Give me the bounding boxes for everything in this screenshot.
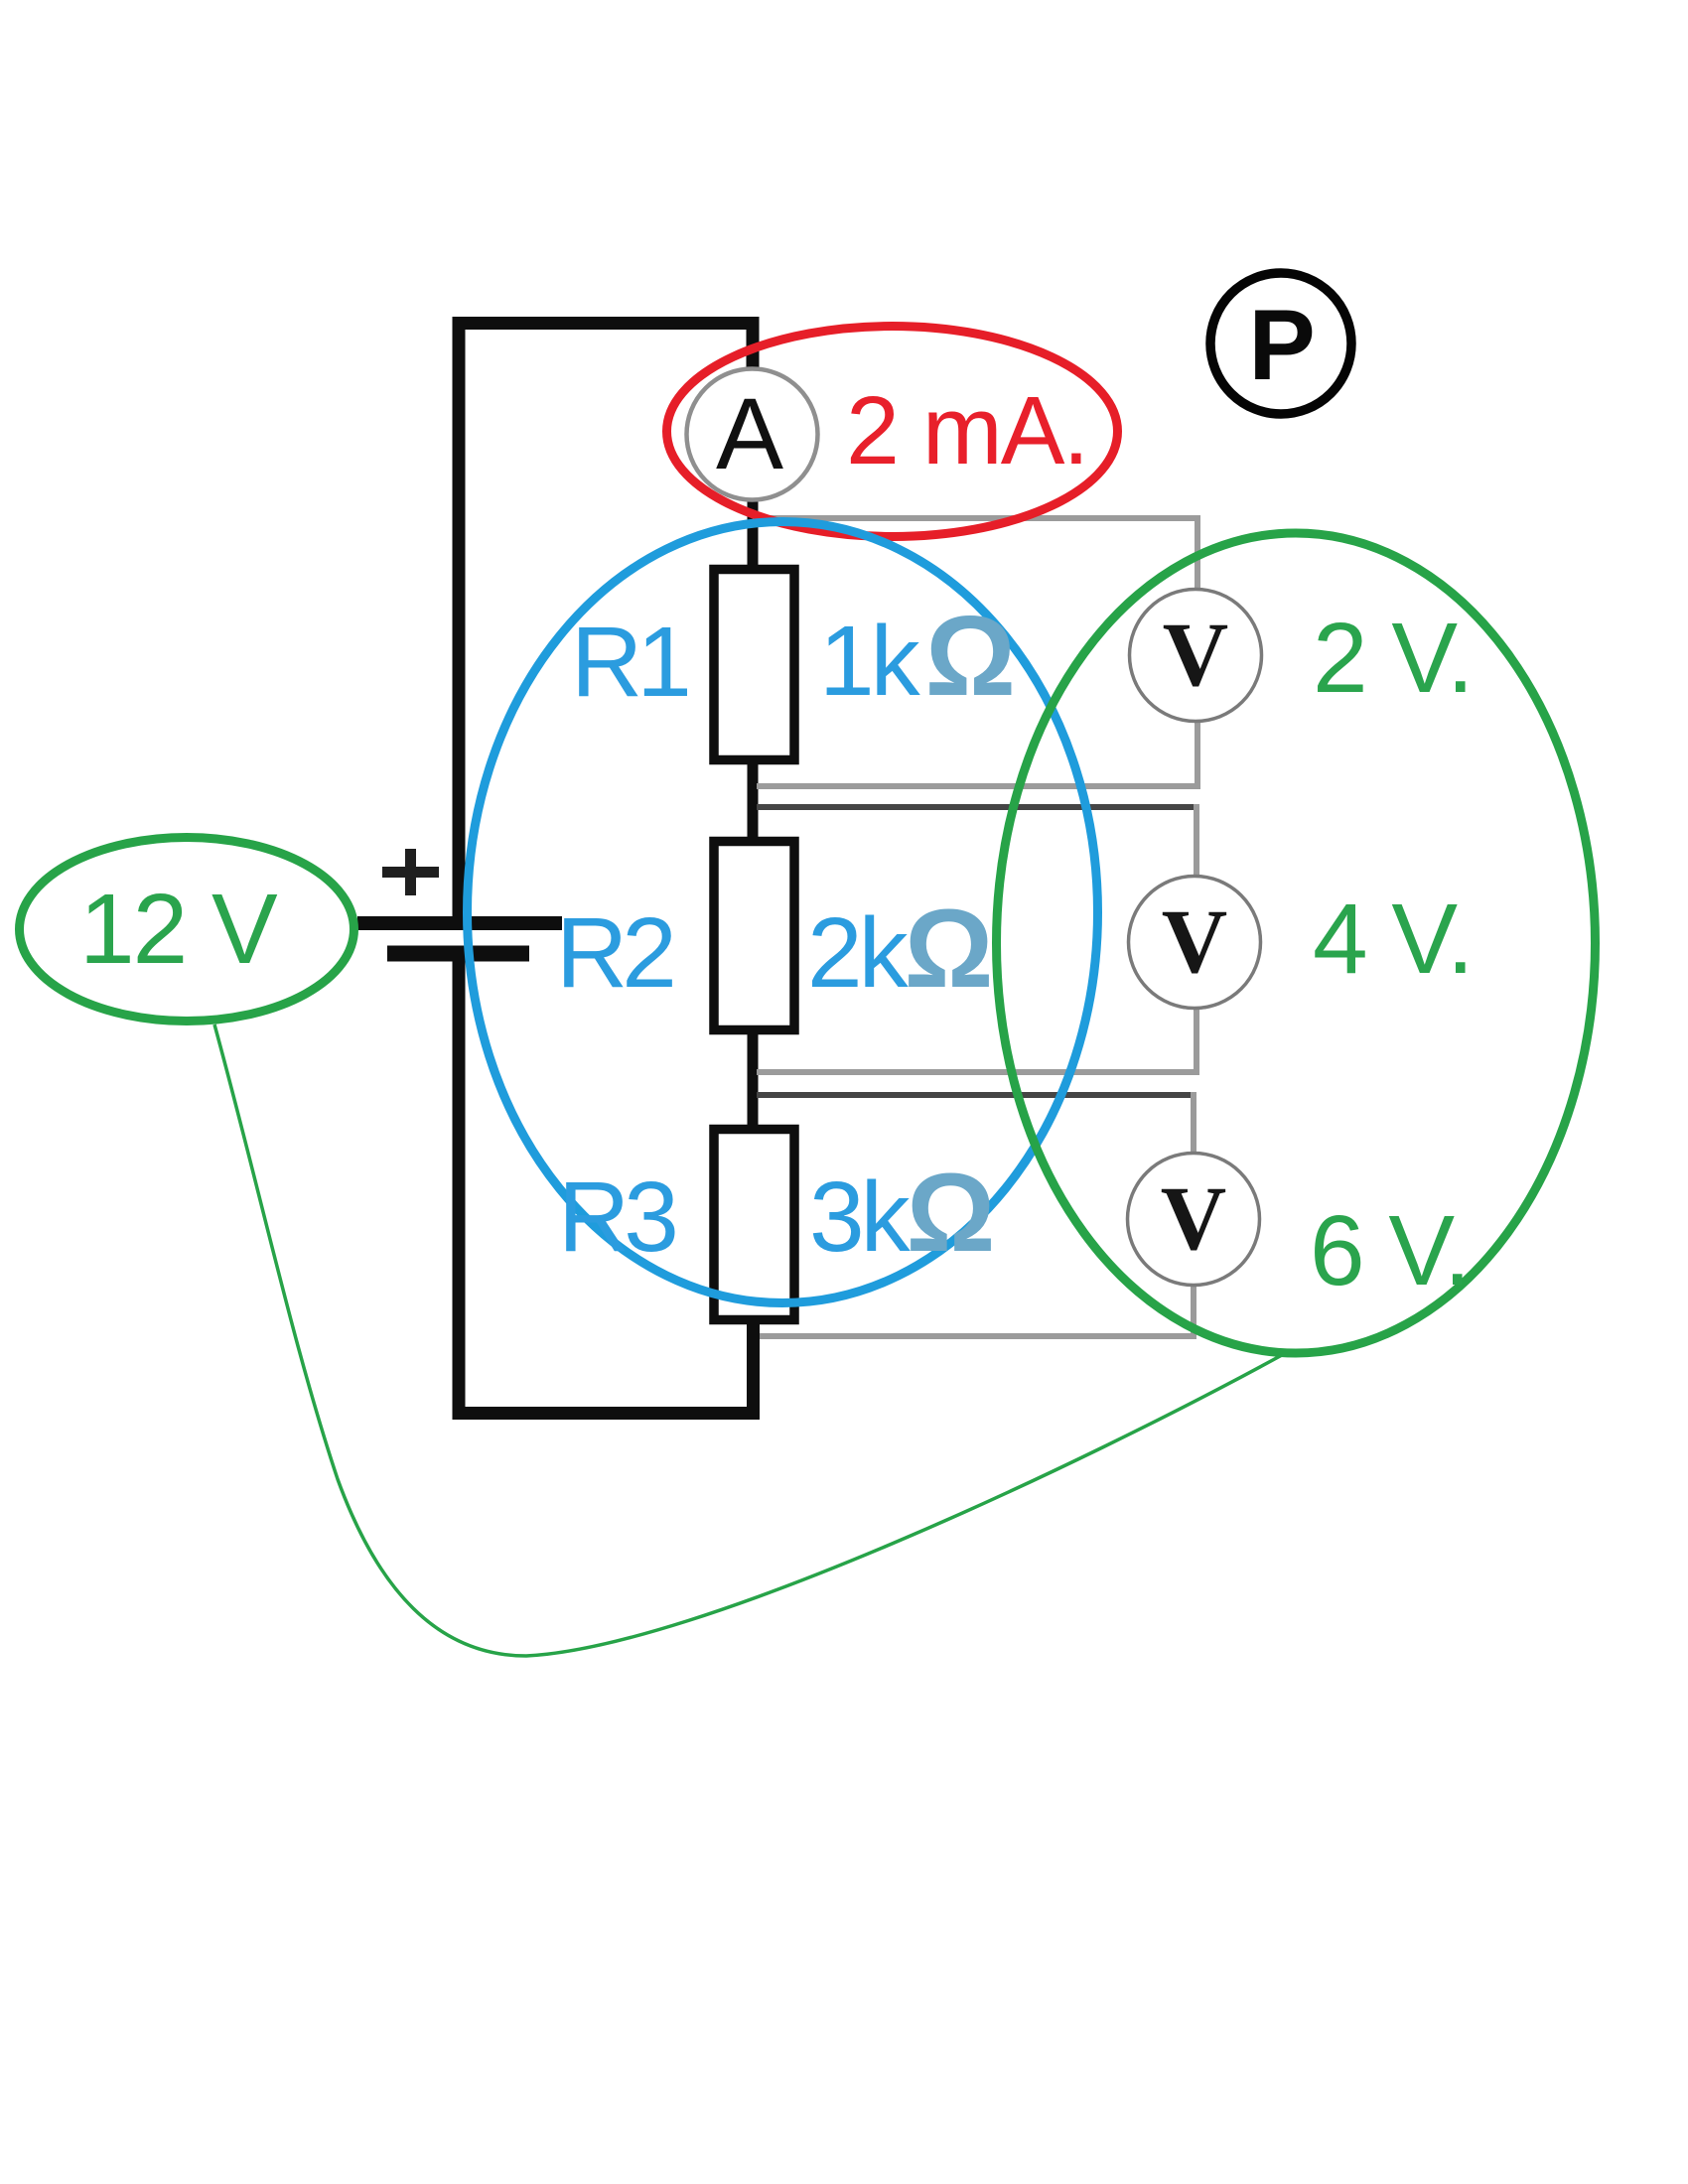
svg-text:P: P <box>1248 290 1315 401</box>
svg-text:12 V: 12 V <box>79 874 278 985</box>
svg-text:4 V.: 4 V. <box>1313 884 1473 995</box>
svg-text:V: V <box>1161 1167 1226 1269</box>
wire bottom loop <box>459 954 754 1414</box>
voltmeter V3 bottom lead <box>760 1286 1194 1336</box>
svg-text:V: V <box>1163 604 1228 705</box>
ammeter A circle <box>687 369 818 500</box>
svg-text:1kΩ: 1kΩ <box>819 594 1012 720</box>
wire R2 to R3 <box>748 1033 759 1126</box>
svg-text:R1: R1 <box>571 607 687 718</box>
green connector curve <box>214 1024 1282 1656</box>
svg-text:R2: R2 <box>556 897 672 1009</box>
resistor R3 body <box>714 1130 794 1320</box>
voltmeter V2 circle <box>1129 877 1261 1009</box>
blue highlight ellipse around resistors <box>468 522 1098 1303</box>
voltmeter V1 circle <box>1130 590 1262 722</box>
voltmeter V3 top lead vertical <box>1191 1092 1196 1153</box>
svg-text:2kΩ: 2kΩ <box>807 887 990 1011</box>
node P circle <box>1210 273 1351 414</box>
resistor R1 body <box>714 570 794 760</box>
svg-text:2 mA.: 2 mA. <box>846 376 1087 484</box>
svg-text:A: A <box>716 377 783 490</box>
voltmeter V1 bottom lead <box>757 722 1197 786</box>
svg-text:6 V.: 6 V. <box>1310 1195 1470 1306</box>
voltmeter V2 bottom lead <box>757 1009 1196 1072</box>
svg-text:V: V <box>1162 890 1227 992</box>
svg-text:3kΩ: 3kΩ <box>809 1151 992 1275</box>
wire top-left loop <box>459 324 753 917</box>
voltmeter V3 circle <box>1128 1154 1260 1286</box>
svg-text:2 V.: 2 V. <box>1313 603 1473 714</box>
svg-text:R3: R3 <box>558 1161 675 1273</box>
battery B1 long plate <box>357 916 562 930</box>
green highlight ellipse around 12 V <box>20 838 354 1022</box>
green highlight ellipse around voltmeters <box>997 533 1596 1353</box>
voltmeter V3 top lead <box>757 1092 1194 1098</box>
voltmeter V2 top lead vertical <box>1194 804 1199 876</box>
red highlight ellipse around ammeter reading <box>667 327 1118 537</box>
resistor R2 body <box>714 842 794 1030</box>
wire R1 to R2 <box>748 763 759 838</box>
battery B1 short plate <box>387 946 529 962</box>
voltmeter V1 top lead <box>753 518 1197 588</box>
wire ammeter to R1 <box>748 500 759 566</box>
voltmeter V2 top lead <box>757 804 1196 810</box>
battery plus sign <box>382 849 439 895</box>
